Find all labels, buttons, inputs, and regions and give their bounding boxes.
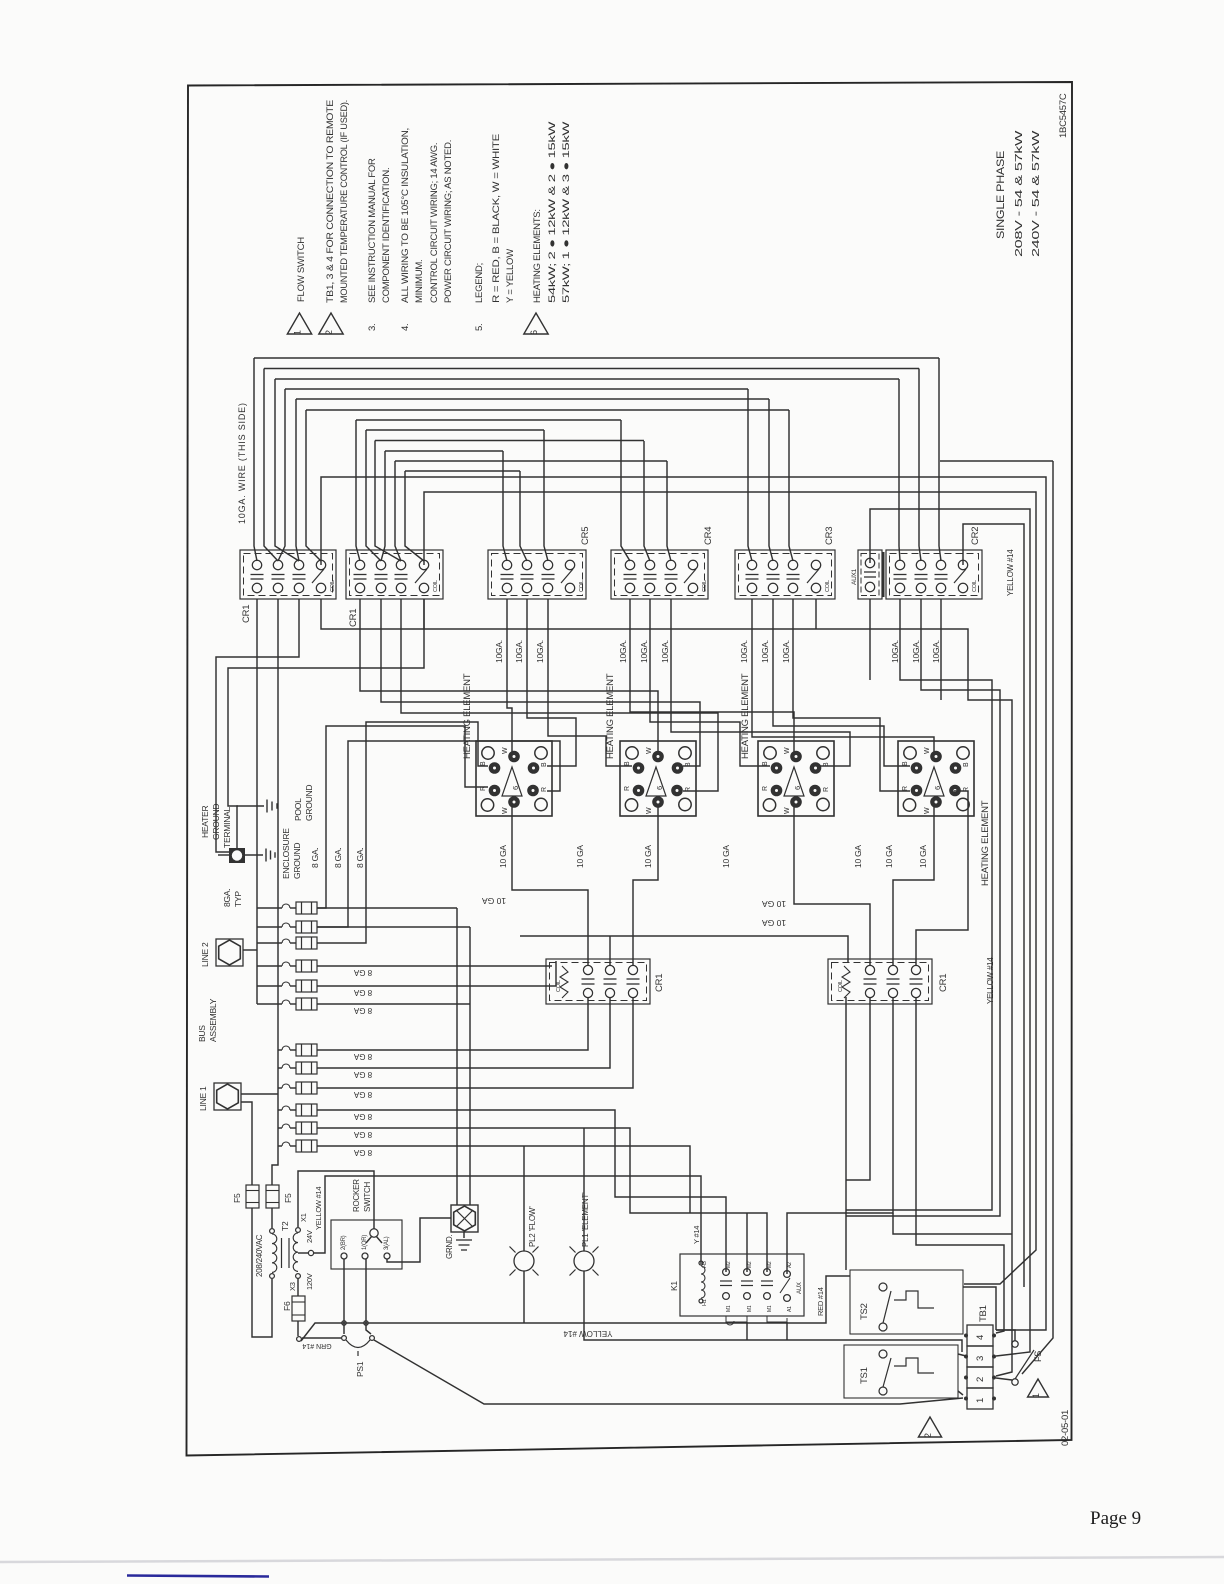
TS wires to TB1 <box>963 1287 996 1330</box>
CR3 to heating element 4 wires <box>752 599 934 752</box>
svg-text:W: W <box>646 807 653 814</box>
svg-text:ALL WIRING TO BE 105°C INSULAT: ALL WIRING TO BE 105°C INSULATION, <box>400 128 411 303</box>
svg-text:10 GA: 10 GA <box>643 845 653 868</box>
pressure switch PS1 <box>302 1337 341 1339</box>
svg-text:4.: 4. <box>400 324 411 331</box>
svg-text:57kW; 1 ● 12kW & 3 ● 15kW: 57kW; 1 ● 12kW & 3 ● 15kW <box>561 122 572 303</box>
svg-text:COIL: COIL <box>579 580 585 592</box>
heating element 3 <box>758 741 834 816</box>
wire drops to contactor CR4 <box>621 420 630 561</box>
svg-text:B: B <box>480 761 487 766</box>
svg-text:1: 1 <box>293 330 303 335</box>
rocker switch box <box>331 1220 402 1269</box>
CR1-A output wires to bus and grounds <box>256 599 258 1004</box>
svg-text:AUX: AUX <box>797 1282 803 1294</box>
svg-text:8 GA: 8 GA <box>353 1090 372 1099</box>
svg-text:TB1, 3 & 4 FOR CONNECTION TO R: TB1, 3 & 4 FOR CONNECTION TO REMOTE <box>325 100 336 303</box>
svg-text:10GA.: 10GA. <box>781 640 791 663</box>
svg-text:10GA.: 10GA. <box>514 640 524 663</box>
svg-text:B: B <box>963 762 970 767</box>
CR4 to heating element 3 wires <box>630 599 794 752</box>
svg-text:SEE INSTRUCTION MANUAL FOR: SEE INSTRUCTION MANUAL FOR <box>367 158 378 303</box>
wire bus below contactors <box>321 599 450 629</box>
svg-text:3(AL): 3(AL) <box>384 1236 390 1250</box>
fuse F6 <box>297 1278 299 1296</box>
svg-text:Y #14: Y #14 <box>692 1226 701 1244</box>
svg-text:F5: F5 <box>232 1193 242 1203</box>
svg-text:LEGEND;: LEGEND; <box>474 263 485 303</box>
svg-text:10 GA: 10 GA <box>482 896 506 906</box>
svg-text:8 GA: 8 GA <box>353 968 372 977</box>
svg-text:TS2: TS2 <box>859 1303 870 1320</box>
svg-text:H1: H1 <box>702 1299 708 1306</box>
svg-text:10 GA: 10 GA <box>575 845 585 868</box>
wire drops to contactor CR1-B <box>356 420 360 561</box>
svg-text:54kW; 2 ● 12kW & 2 ● 15kW: 54kW; 2 ● 12kW & 2 ● 15kW <box>547 122 558 303</box>
svg-text:W: W <box>924 807 931 814</box>
relay box output wires <box>317 997 588 1050</box>
svg-text:1BC5457C: 1BC5457C <box>1058 93 1069 138</box>
flow switch FS <box>1012 1341 1018 1347</box>
CR1-B output wires <box>360 599 658 752</box>
svg-text:CR1: CR1 <box>241 605 252 623</box>
svg-text:X3: X3 <box>288 1282 297 1291</box>
svg-text:W: W <box>924 747 931 754</box>
svg-text:LINE 2: LINE 2 <box>200 942 210 967</box>
svg-text:GROUND: GROUND <box>304 785 314 821</box>
svg-text:02-05-01: 02-05-01 <box>1060 1410 1071 1446</box>
svg-text:F6: F6 <box>282 1301 292 1311</box>
svg-text:M2: M2 <box>726 1261 732 1268</box>
svg-text:1: 1 <box>975 1398 986 1403</box>
svg-text:208/240VAC: 208/240VAC <box>255 1234 264 1277</box>
note triangle 2 under TB1 <box>918 1417 941 1437</box>
ground lug GRND <box>451 1205 478 1232</box>
blue pen mark bottom-left <box>127 1576 269 1577</box>
element to relay wires <box>512 807 588 966</box>
svg-text:Y = YELLOW: Y = YELLOW <box>505 249 516 303</box>
svg-text:10 GA: 10 GA <box>884 845 894 868</box>
svg-text:6: 6 <box>933 786 942 790</box>
svg-text:GRND.: GRND. <box>445 1234 454 1259</box>
rocker wires down to PS1 <box>343 1259 345 1334</box>
bus fuses LINE 1 <box>296 1044 317 1056</box>
bus bars LINE 2 <box>243 949 257 951</box>
svg-text:B: B <box>624 761 631 766</box>
svg-text:W: W <box>784 807 791 814</box>
svg-text:CR1: CR1 <box>348 609 359 627</box>
svg-text:HEATER: HEATER <box>200 806 210 838</box>
svg-text:10 GA: 10 GA <box>918 845 928 868</box>
relay coil box CR1 (mid-right) <box>828 959 932 1004</box>
svg-text:R: R <box>685 787 692 792</box>
wire drops to contactor CR2 <box>939 358 941 561</box>
svg-text:8 GA: 8 GA <box>353 988 372 997</box>
svg-text:10GA.: 10GA. <box>660 640 670 663</box>
svg-text:6: 6 <box>511 786 520 790</box>
svg-text:R: R <box>480 786 487 791</box>
svg-text:10GA. WIRE (THIS SIDE): 10GA. WIRE (THIS SIDE) <box>237 403 247 524</box>
relay coil box CR1 (mid-left) <box>546 959 650 1004</box>
svg-text:R: R <box>762 786 769 791</box>
svg-text:B: B <box>902 761 909 766</box>
svg-text:A2: A2 <box>787 1262 793 1268</box>
svg-text:ENCLOSURE: ENCLOSURE <box>281 828 291 879</box>
svg-text:10 GA: 10 GA <box>762 899 786 909</box>
feed wires down to F5 fuses <box>241 1102 252 1185</box>
svg-text:POOL: POOL <box>293 798 303 821</box>
svg-text:FS: FS <box>1033 1351 1043 1362</box>
svg-text:CR5: CR5 <box>580 527 591 545</box>
wires into ground lug <box>317 907 457 909</box>
svg-text:CR1: CR1 <box>938 974 949 992</box>
lamp return wires <box>301 1276 850 1341</box>
svg-text:COIL: COIL <box>433 580 439 592</box>
svg-text:HEATING ELEMENT: HEATING ELEMENT <box>980 800 991 886</box>
8GA wires from bus fuses up to heating element 1 <box>317 726 488 908</box>
svg-text:BUS: BUS <box>197 1025 207 1042</box>
svg-text:10GA.: 10GA. <box>739 640 749 663</box>
svg-text:6: 6 <box>793 786 802 790</box>
svg-text:3: 3 <box>975 1356 986 1361</box>
svg-text:10GA.: 10GA. <box>931 640 941 663</box>
svg-text:ROCKER: ROCKER <box>352 1179 361 1212</box>
svg-text:COIL: COIL <box>972 580 978 592</box>
note symbol triangle 2 <box>319 313 343 334</box>
svg-text:HEATING ELEMENTS:: HEATING ELEMENTS: <box>532 209 543 303</box>
svg-text:CR1: CR1 <box>654 974 665 992</box>
wire drops to contactor CR5 <box>503 451 507 561</box>
svg-text:ASSEMBLY: ASSEMBLY <box>208 998 218 1042</box>
contactor CR5 <box>488 550 586 599</box>
svg-text:M2: M2 <box>747 1261 753 1268</box>
svg-text:120V: 120V <box>305 1273 314 1290</box>
svg-text:3.: 3. <box>367 324 378 331</box>
svg-text:AUX1: AUX1 <box>851 568 858 585</box>
svg-text:PL2 ’FLOW’: PL2 ’FLOW’ <box>528 1206 537 1247</box>
svg-text:10GA.: 10GA. <box>639 640 649 663</box>
svg-text:10GA.: 10GA. <box>494 640 504 663</box>
svg-text:TS1: TS1 <box>859 1367 870 1384</box>
svg-text:6: 6 <box>655 786 664 790</box>
svg-text:SINGLE PHASE: SINGLE PHASE <box>995 151 1007 239</box>
pilot lamp PL1 ELEMENT <box>574 1251 594 1271</box>
svg-text:COIL: COIL <box>556 980 562 992</box>
note symbol triangle 6 <box>524 313 548 334</box>
svg-text:PS1: PS1 <box>355 1361 365 1377</box>
svg-text:T2: T2 <box>280 1221 290 1231</box>
svg-text:R: R <box>541 787 548 792</box>
contactor CR4 <box>611 550 708 599</box>
heating element 1 <box>476 741 552 816</box>
svg-text:2: 2 <box>975 1377 986 1382</box>
heating element 4 <box>898 741 974 816</box>
svg-text:HEATING ELEMENT: HEATING ELEMENT <box>740 673 751 759</box>
svg-text:M1: M1 <box>767 1305 773 1312</box>
svg-text:COIL: COIL <box>838 980 844 992</box>
svg-text:5.: 5. <box>474 324 485 331</box>
heater ground terminal lug <box>229 848 245 863</box>
fuse F5 left <box>246 1185 259 1208</box>
svg-text:8 GA: 8 GA <box>353 1006 372 1015</box>
svg-text:COMPONENT IDENTIFICATION.: COMPONENT IDENTIFICATION. <box>381 168 392 303</box>
svg-text:POWER CIRCUIT WIRING; AS NOTED: POWER CIRCUIT WIRING; AS NOTED. <box>443 140 454 303</box>
svg-text:B: B <box>685 762 692 767</box>
svg-text:COIL: COIL <box>330 580 336 592</box>
relay K1 <box>680 1254 804 1316</box>
svg-text:R = RED, B = BLACK, W = WHITE: R = RED, B = BLACK, W = WHITE <box>491 134 502 303</box>
svg-text:YELLOW #14: YELLOW #14 <box>563 1329 612 1338</box>
svg-text:GRN #14: GRN #14 <box>302 1342 331 1349</box>
pool ground symbol <box>237 806 264 848</box>
svg-text:COIL: COIL <box>825 580 831 592</box>
svg-text:CR2: CR2 <box>970 527 981 545</box>
svg-text:8 GA.: 8 GA. <box>333 848 343 868</box>
svg-text:W: W <box>784 747 791 754</box>
wire PS1 to TB1-1 <box>374 1340 963 1404</box>
svg-text:SWITCH: SWITCH <box>363 1181 372 1212</box>
svg-text:4: 4 <box>975 1335 986 1340</box>
svg-text:RED #14: RED #14 <box>816 1287 825 1316</box>
svg-text:PL1 ’ELEMENT’: PL1 ’ELEMENT’ <box>581 1192 590 1247</box>
svg-text:M1: M1 <box>747 1305 753 1312</box>
CR2 output wires to lower right <box>846 599 992 1210</box>
top wire bundle: 12 routing lines <box>254 357 939 359</box>
svg-text:8GA.: 8GA. <box>222 889 232 907</box>
svg-text:TYP: TYP <box>233 891 243 907</box>
svg-text:8 GA: 8 GA <box>353 1130 372 1139</box>
svg-text:8 GA: 8 GA <box>353 1148 372 1157</box>
svg-text:8 GA: 8 GA <box>353 1052 372 1061</box>
svg-text:TERMINAL: TERMINAL <box>222 807 232 849</box>
svg-text:B: B <box>541 762 548 767</box>
svg-text:240V - 54 & 57kW: 240V - 54 & 57kW <box>1030 130 1042 257</box>
bus fuses LINE 2 <box>296 902 317 914</box>
svg-text:R: R <box>823 787 830 792</box>
svg-text:X1: X1 <box>299 1213 308 1222</box>
CR5 to heating element wires <box>507 599 512 752</box>
contactor CR1 (B) <box>346 550 443 599</box>
svg-text:CONTROL CIRCUIT WIRING; 14 AWG: CONTROL CIRCUIT WIRING; 14 AWG. <box>429 143 440 303</box>
contactor CR1 (A) <box>240 550 336 599</box>
enclosure ground symbol <box>245 854 263 856</box>
svg-text:10GA.: 10GA. <box>535 640 545 663</box>
svg-text:M1: M1 <box>726 1305 732 1312</box>
svg-text:2: 2 <box>324 330 334 335</box>
coil feed wires to right-side bundle <box>321 477 1046 1330</box>
drawing border frame <box>187 82 1073 1456</box>
svg-text:10 GA: 10 GA <box>721 845 731 868</box>
svg-text:FLOW SWITCH: FLOW SWITCH <box>296 237 307 302</box>
svg-text:8 GA.: 8 GA. <box>355 848 365 868</box>
svg-text:K1: K1 <box>669 1281 679 1291</box>
svg-text:MINIMUM.: MINIMUM. <box>414 260 425 303</box>
svg-text:CR4: CR4 <box>703 527 714 545</box>
svg-text:GROUND: GROUND <box>292 843 302 879</box>
svg-text:HEATING ELEMENT: HEATING ELEMENT <box>605 673 616 759</box>
svg-text:YELLOW #14: YELLOW #14 <box>1006 549 1015 596</box>
svg-text:Page 9: Page 9 <box>1090 1508 1141 1529</box>
bus output wires <box>317 965 552 967</box>
svg-text:8 GA: 8 GA <box>353 1070 372 1079</box>
note symbol triangle 1 <box>287 313 311 334</box>
svg-text:MOUNTED TEMPERATURE CONTROL (I: MOUNTED TEMPERATURE CONTROL (IF USED). <box>339 100 350 303</box>
24V tap <box>298 1252 308 1254</box>
svg-text:2: 2 <box>923 1433 933 1438</box>
svg-text:W: W <box>502 747 509 754</box>
note triangle 1 near FS <box>1028 1379 1049 1397</box>
heating element 2 <box>620 741 696 816</box>
wire drops to contactor CR3 <box>748 389 752 561</box>
scan page-edge gray line <box>0 1557 1224 1562</box>
svg-text:LINE 1: LINE 1 <box>198 1086 208 1111</box>
svg-text:YELLOW #14: YELLOW #14 <box>314 1187 323 1230</box>
svg-text:1: 1 <box>1031 1393 1041 1398</box>
svg-text:HEATING ELEMENT: HEATING ELEMENT <box>462 673 473 759</box>
svg-text:2(BR): 2(BR) <box>341 1235 347 1250</box>
svg-text:8 GA.: 8 GA. <box>310 848 320 868</box>
svg-text:W: W <box>502 807 509 814</box>
svg-text:W: W <box>646 747 653 754</box>
svg-text:B: B <box>823 762 830 767</box>
svg-text:M2: M2 <box>767 1261 773 1268</box>
AUX1 lower wire <box>869 599 871 680</box>
svg-text:10 GA: 10 GA <box>762 918 786 928</box>
svg-text:B: B <box>762 761 769 766</box>
svg-text:YELLOW #14: YELLOW #14 <box>986 957 995 1004</box>
svg-text:A1: A1 <box>787 1306 793 1312</box>
svg-text:CR3: CR3 <box>824 527 835 545</box>
svg-text:10GA.: 10GA. <box>911 640 921 663</box>
svg-text:R: R <box>902 786 909 791</box>
svg-text:208V - 54 & 57kW: 208V - 54 & 57kW <box>1013 130 1025 257</box>
svg-text:6: 6 <box>529 330 539 335</box>
svg-text:10 GA: 10 GA <box>498 845 508 868</box>
wire drops to contactor CR1-A <box>254 358 257 561</box>
wires F5 to transformer <box>252 1208 272 1337</box>
contactor CR3 <box>735 550 835 599</box>
svg-text:10GA.: 10GA. <box>760 640 770 663</box>
thermostat TS2 <box>850 1270 963 1334</box>
svg-text:24V: 24V <box>305 1230 314 1243</box>
contactor CR2 <box>886 550 982 599</box>
bus bars LINE 1 <box>241 1093 278 1095</box>
wire X1 up to rocker switch <box>298 1171 374 1229</box>
aux contact AUX1 <box>858 550 882 599</box>
svg-text:10GA.: 10GA. <box>618 640 628 663</box>
fuse F5 right <box>266 1185 279 1208</box>
thermostat TS1 <box>844 1345 958 1398</box>
svg-text:10GA.: 10GA. <box>890 640 900 663</box>
svg-text:8 GA: 8 GA <box>353 1112 372 1121</box>
svg-text:COIL: COIL <box>702 580 708 592</box>
svg-text:10 GA: 10 GA <box>853 845 863 868</box>
svg-text:GROUND: GROUND <box>211 804 221 840</box>
svg-text:F5: F5 <box>283 1193 293 1203</box>
svg-text:TB1: TB1 <box>978 1305 989 1322</box>
svg-text:H3: H3 <box>702 1261 708 1268</box>
pilot lamp PL2 FLOW <box>514 1251 534 1271</box>
svg-text:R: R <box>624 786 631 791</box>
